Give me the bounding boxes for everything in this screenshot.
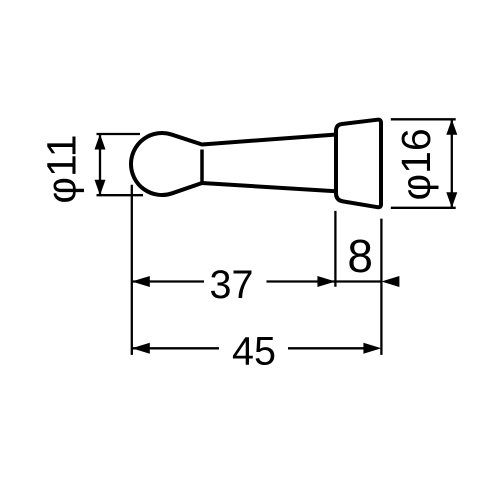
svg-text:45: 45 — [232, 330, 276, 374]
svg-text:37: 37 — [210, 263, 254, 307]
svg-text:8: 8 — [347, 230, 373, 282]
svg-text:φ11: φ11 — [39, 134, 85, 203]
svg-text:φ16: φ16 — [393, 128, 439, 200]
